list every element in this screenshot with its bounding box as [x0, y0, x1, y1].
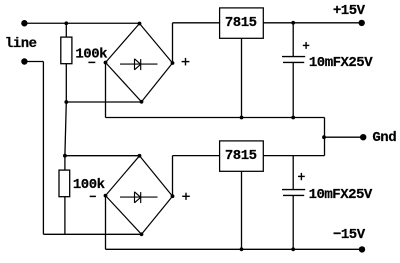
- wire U1 output: [263, 22, 361, 24]
- resistor R1 100k: [61, 37, 72, 64]
- capacitor C2 top lead: [292, 156, 294, 190]
- node BR1 left vertex: [104, 61, 108, 65]
- diode D2 inside BR2: [120, 192, 158, 203]
- svg-text:100k: 100k: [75, 46, 107, 62]
- wire BR1 plus output up: [172, 23, 174, 63]
- wire -15V bus: [106, 248, 363, 250]
- capacitor C2 plates: [282, 190, 305, 196]
- wire top AC rail: [24, 22, 139, 24]
- polarity plus BR2: [182, 193, 190, 200]
- polarity plus C1: [303, 42, 310, 49]
- wire U2 ground pin: [241, 171, 243, 249]
- capacitor C1 plates: [282, 57, 305, 63]
- svg-text:Gnd: Gnd: [372, 130, 396, 146]
- node junction R1 bottom: [64, 100, 68, 104]
- polarity minus BR2: [90, 195, 96, 197]
- svg-text:7815: 7815: [225, 15, 257, 31]
- capacitor C1 top lead: [292, 23, 294, 57]
- wire R2 top stub: [64, 156, 66, 170]
- wire AC rail circuit2: [65, 155, 140, 157]
- regulator U2 7815 box: [220, 141, 264, 171]
- wire R1 top stub: [65, 23, 67, 37]
- wire to bridge1 bottom vertex: [66, 101, 141, 103]
- svg-text:line: line: [5, 36, 37, 52]
- polarity minus BR1: [88, 61, 95, 63]
- node junction R2 top: [63, 154, 67, 158]
- node junction C1 bottom on bus: [291, 116, 295, 120]
- wire feed to lower circuit: [65, 102, 66, 156]
- node junction U2 gnd on bus: [240, 247, 244, 251]
- node BR1 bottom vertex: [140, 100, 144, 104]
- capacitor C1 bottom lead: [292, 62, 294, 117]
- svg-text:+15V: +15V: [333, 3, 366, 19]
- resistor R2 100k: [59, 170, 70, 197]
- node junction C1 top: [291, 21, 295, 25]
- node line-top terminal: [21, 20, 27, 26]
- node -15V terminal: [359, 246, 365, 252]
- wire BR1 minus output down: [105, 63, 107, 118]
- svg-text:7815: 7815: [225, 148, 257, 164]
- node line-bottom terminal: [21, 58, 27, 64]
- bridge rectifier BR1: [106, 24, 173, 102]
- wire BR2 to U2 input: [173, 155, 220, 157]
- svg-text:−15V: −15V: [333, 227, 366, 243]
- node BR2 top vertex: [138, 154, 142, 158]
- wire R1 bottom stub: [65, 64, 67, 102]
- wire Gnd stub: [325, 136, 364, 138]
- capacitor C2 bottom lead: [292, 195, 294, 249]
- node BR2 right vertex: [171, 194, 175, 198]
- polarity plus C2: [298, 173, 305, 180]
- wire U1 ground pin: [241, 38, 243, 117]
- wire BR1 to U1 input: [173, 22, 220, 24]
- wire BR2 plus output up: [172, 156, 174, 197]
- node Gnd terminal: [360, 134, 366, 140]
- node BR2 left vertex: [104, 194, 108, 198]
- polarity plus BR1: [182, 58, 190, 66]
- node junction R1 top: [64, 21, 68, 25]
- node Gnd junction: [322, 135, 326, 139]
- node BR1 right vertex: [171, 61, 175, 65]
- node BR1 top vertex: [138, 22, 142, 26]
- wire R2 bottom stub: [64, 197, 66, 235]
- wire BR2 minus output down: [105, 196, 107, 250]
- bridge rectifier BR2: [106, 156, 173, 235]
- svg-text:100k: 100k: [73, 177, 105, 193]
- wire ground bus: [106, 117, 325, 119]
- svg-text:10mFX25V: 10mFX25V: [309, 187, 373, 203]
- wire line-bottom vertical: [42, 62, 44, 235]
- diode D1 inside BR1: [120, 59, 158, 70]
- node +15V terminal: [359, 20, 365, 26]
- svg-text:10mFX25V: 10mFX25V: [309, 55, 373, 71]
- regulator U1 7815 box: [220, 8, 264, 38]
- node BR2 bottom vertex: [140, 232, 144, 236]
- wire ground bus drop: [324, 118, 326, 156]
- wire bottom AC rail circuit2: [43, 233, 141, 235]
- wire U2 output: [263, 155, 324, 157]
- wire line-bottom horizontal: [24, 61, 43, 63]
- node junction C2 bottom on bus: [291, 247, 295, 251]
- node junction U1 gnd on bus: [240, 116, 244, 120]
